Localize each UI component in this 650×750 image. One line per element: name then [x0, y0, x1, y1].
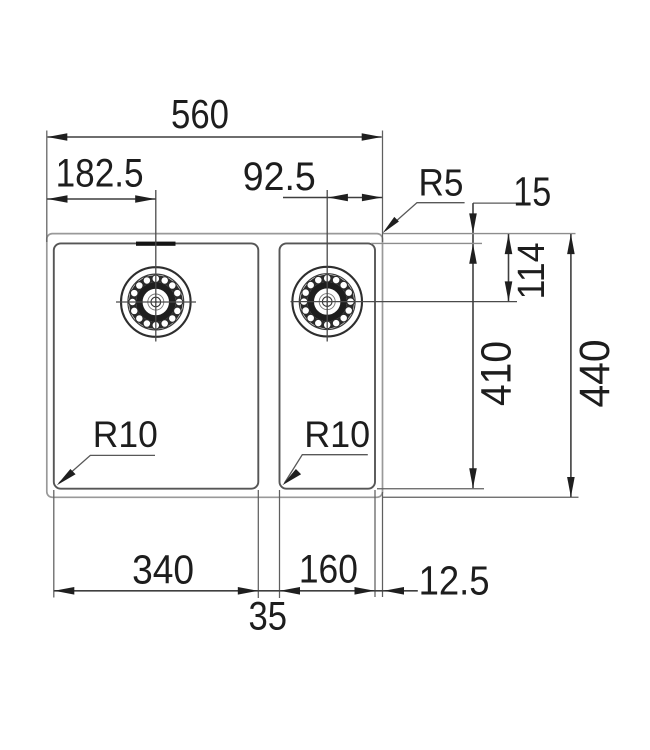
svg-text:R10: R10 — [304, 414, 370, 455]
svg-text:R5: R5 — [419, 163, 464, 205]
svg-text:114: 114 — [511, 243, 553, 300]
label R5 leader line — [386, 203, 465, 231]
dimension 440 up arrow — [567, 234, 575, 254]
extension line outer bottom edge to the right — [383, 496, 579, 498]
svg-text:440: 440 — [571, 340, 619, 408]
dimension 182.5 right arrow — [135, 195, 155, 203]
dimension 15 leader line — [473, 202, 517, 204]
dimension 560 right arrow — [362, 133, 382, 141]
extension line outer right edge down — [382, 492, 384, 597]
dimension 440 down arrow — [567, 477, 575, 497]
dimension 15 down arrow onto outer top edge — [469, 213, 477, 233]
dimension 114 down arrow — [505, 281, 513, 301]
svg-text:560: 560 — [171, 91, 229, 137]
svg-text:160: 160 — [299, 548, 358, 592]
dimension 15 / 410 up arrow onto bowl top edge — [469, 244, 477, 264]
extension line outer top edge to the right — [383, 233, 576, 235]
dimension 560 line — [48, 136, 382, 138]
svg-text:12.5: 12.5 — [419, 558, 490, 604]
dimension 182.5 left arrow — [48, 195, 68, 203]
svg-text:410: 410 — [473, 341, 521, 406]
label R10 right leader line — [285, 455, 368, 483]
dimension 440 vertical line — [570, 234, 572, 497]
svg-text:35: 35 — [249, 595, 288, 639]
extension line left at x=46.8 above sink — [46, 131, 48, 243]
dimension 160 left arrow — [280, 587, 300, 595]
dimension 92.5 line with leader under text — [283, 197, 383, 199]
dimension 12.5 arrow pointing left at outer right edge — [384, 587, 404, 595]
svg-text:340: 340 — [132, 547, 194, 593]
centerline drain 1 horizontal — [116, 301, 196, 303]
centerline drain 2 horizontal merged with 114 extension line — [291, 301, 518, 303]
bottom dimension line 340/35/160/12.5 — [54, 590, 418, 592]
dimension 160 right arrow — [355, 587, 375, 595]
drain strainer 2 (right bowl) — [292, 267, 362, 337]
svg-text:15: 15 — [513, 169, 551, 215]
extension line bowl2 right edge down — [374, 490, 376, 597]
dimension 340 right arrow — [238, 587, 258, 595]
label R10 right arrowhead — [282, 469, 301, 485]
centerline drain 2 vertical — [326, 190, 328, 342]
svg-text:R10: R10 — [93, 414, 158, 455]
extension line bowl2 left edge down — [279, 490, 281, 598]
label R5 arrowhead at top-right corner — [383, 217, 399, 233]
dimension 410 down arrow onto bowl bottom edge — [469, 468, 477, 488]
svg-text:92.5: 92.5 — [243, 155, 316, 199]
extension line bowl top edge to the right — [371, 242, 482, 244]
drain strainer 1 (left bowl) — [121, 267, 191, 337]
extension line bowl bottom edge to the right — [377, 488, 484, 490]
bowl 1 (left basin) — [54, 243, 258, 488]
dimension 340 left arrow — [54, 587, 74, 595]
tap hole slot mark on bowl 1 top edge — [136, 242, 176, 246]
outer sink rim rectangle — [47, 234, 383, 498]
dimension 15/410 shared vertical line — [472, 203, 474, 488]
label R10 left arrowhead — [57, 469, 76, 485]
extension line bowl1 left edge down — [53, 490, 55, 598]
svg-text:182.5: 182.5 — [56, 152, 144, 196]
dimension 92.5 right arrow pointing at right edge — [362, 194, 382, 202]
dimension 114 vertical line — [508, 234, 510, 302]
bowl 2 (right basin) — [280, 243, 376, 488]
extension line bowl1 right edge down — [257, 490, 259, 598]
dimension 114 up arrow — [505, 234, 513, 254]
extension line right at x=382.5 above sink — [382, 131, 384, 243]
dimension 182.5 line — [47, 198, 156, 200]
dimension 560 left arrow — [47, 133, 67, 141]
dimension 92.5 left arrow pointing at drain2 centerline — [328, 194, 348, 202]
label R10 left leader line — [59, 455, 155, 483]
centerline drain 1 vertical — [155, 190, 157, 342]
